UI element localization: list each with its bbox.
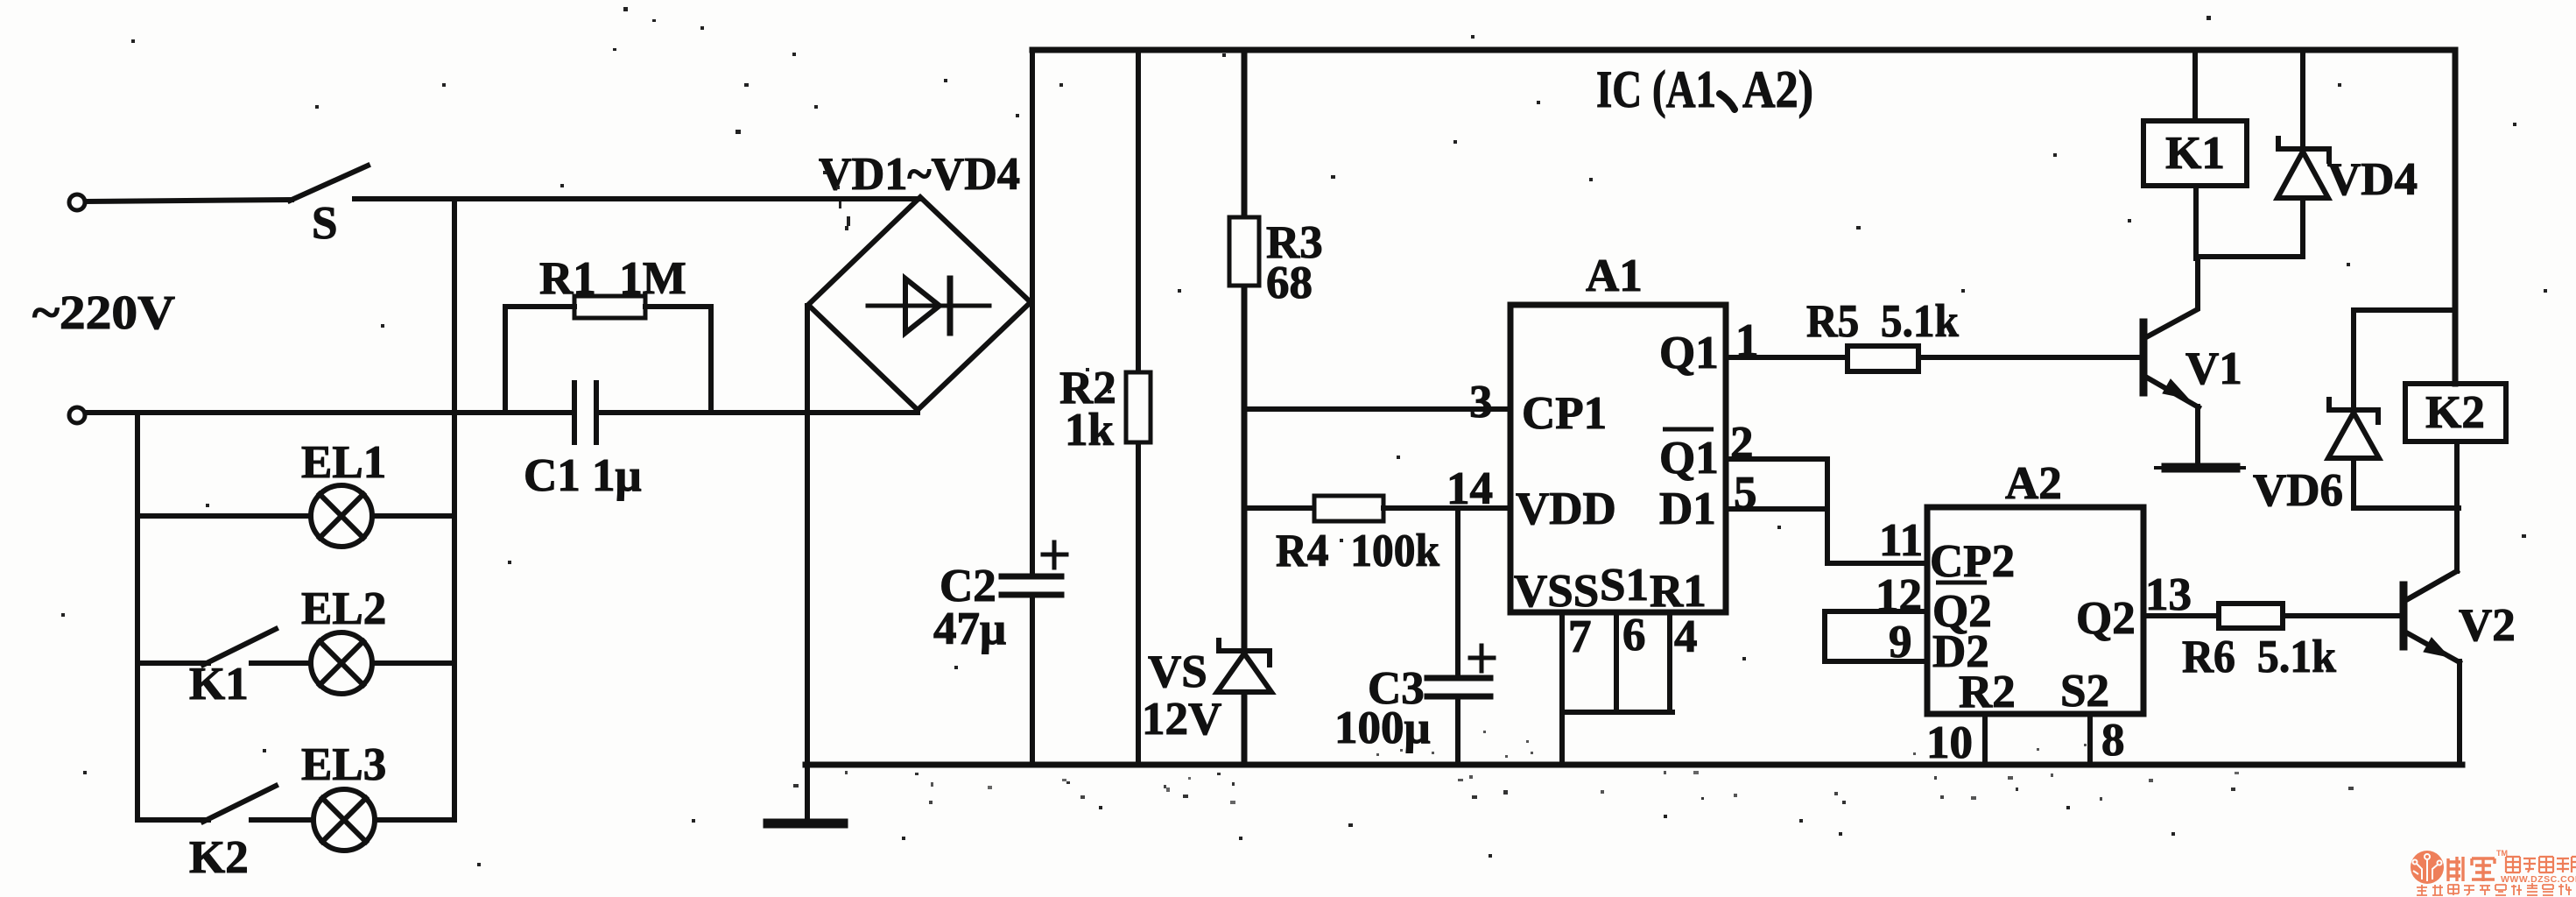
svg-text:K1: K1 [189, 659, 249, 710]
wire VD4 to K1 junction [2196, 254, 2303, 259]
wire lamp right rail [452, 200, 457, 820]
wire bridge minus output down [805, 306, 810, 823]
lamp EL3 [251, 817, 313, 823]
pin 8 stub [2087, 714, 2093, 762]
svg-text:VD6: VD6 [2253, 465, 2343, 516]
pin 12 to pin 9 loop Q2bar to D2 [1825, 611, 1927, 661]
svg-text:VSS: VSS [1514, 566, 1599, 617]
svg-text:Q1: Q1 [1659, 328, 1719, 378]
svg-text:IC (A1: IC (A1 [1596, 60, 1716, 118]
capacitor C1 [572, 383, 577, 442]
svg-text:7: 7 [1568, 611, 1592, 662]
diode VD4 [2300, 50, 2305, 149]
pin 6 stub [1614, 612, 1619, 712]
wire CP1 (pin 3) [1244, 406, 1510, 412]
svg-text:VD4: VD4 [2327, 154, 2418, 205]
wire pin bus A1 [1562, 710, 1672, 715]
svg-text:C1 1μ: C1 1μ [524, 450, 642, 501]
resistor R4 [1244, 505, 1314, 511]
AC input terminal top [69, 194, 85, 210]
diode VD6 [2354, 310, 2455, 410]
svg-text:EL2: EL2 [301, 583, 386, 634]
pin 2 wire Q1bar [1726, 459, 1927, 563]
svg-text:9: 9 [1889, 617, 1912, 667]
svg-text:D1: D1 [1659, 484, 1716, 534]
resistor R1 [505, 307, 574, 413]
wire bottom ground rail [806, 762, 2462, 768]
AC input terminal bottom [69, 407, 85, 423]
wire from top terminal to switch S [86, 200, 292, 201]
pin 5 wire D1 [1726, 506, 1827, 512]
svg-text:1k: 1k [1065, 405, 1115, 456]
resistor R6 [2219, 604, 2283, 628]
pin 1 wire Q1 to R5 [1726, 355, 1848, 360]
svg-text:R1 1M: R1 1M [539, 253, 686, 304]
svg-text:4: 4 [1674, 611, 1698, 662]
svg-text:R5 5.1k: R5 5.1k [1806, 296, 1959, 347]
pin 13 wire Q2 to R6 [2143, 613, 2219, 618]
wire top supply rail [1032, 50, 2455, 384]
ground V1 emitter [2156, 466, 2244, 470]
svg-text:K1: K1 [2165, 128, 2225, 179]
wire bottom terminal to C1 left plate (AC line 2) [86, 410, 574, 415]
svg-text:13: 13 [2145, 569, 2192, 620]
IC A2 [1927, 507, 2143, 714]
svg-text:K2: K2 [189, 832, 249, 883]
capacitor C3 [1455, 508, 1460, 675]
svg-text:WWW.DZSC.COM: WWW.DZSC.COM [2501, 874, 2576, 885]
switch S blade [290, 166, 368, 201]
svg-text:47μ: 47μ [933, 604, 1006, 654]
zener diode VS [1219, 640, 1270, 665]
svg-text:VS: VS [1148, 646, 1207, 697]
svg-text:12: 12 [1876, 570, 1922, 621]
svg-text:68: 68 [1266, 258, 1313, 308]
watermark [2411, 849, 2576, 895]
svg-text:~220V: ~220V [32, 286, 175, 339]
svg-text:EL1: EL1 [301, 437, 386, 488]
watermark logo circle [2411, 851, 2444, 884]
IC A1 [1510, 305, 1726, 612]
svg-text:A1: A1 [1586, 251, 1643, 301]
resistor R2 [1136, 50, 1141, 765]
lamp EL1 [137, 513, 311, 519]
svg-text:A2): A2) [1742, 60, 1813, 118]
watermark slogan glyphs [2417, 883, 2572, 895]
svg-text:A2: A2 [2005, 458, 2062, 509]
wire switch S to bridge top (AC line 1) [355, 196, 920, 201]
svg-text:S2: S2 [2060, 666, 2109, 717]
resistor R3 [1242, 50, 1248, 765]
wire bridge plus output vertical [1030, 50, 1035, 574]
lamp EL2 [251, 660, 311, 666]
svg-text:VDD: VDD [1516, 484, 1616, 534]
svg-text:VD1~VD4: VD1~VD4 [819, 149, 1020, 200]
relay contact K2 [137, 817, 208, 823]
svg-text:S: S [312, 198, 337, 249]
svg-text:Q2: Q2 [2076, 593, 2136, 644]
pin 4 stub [1667, 612, 1672, 712]
svg-text:6: 6 [1622, 610, 1646, 660]
svg-text:14: 14 [1446, 463, 1493, 514]
svg-text:11: 11 [1879, 515, 1923, 566]
bridge rectifier VD1~VD4 [808, 197, 1031, 410]
svg-text:CP1: CP1 [1522, 388, 1607, 439]
svg-text:R2: R2 [1959, 667, 2016, 717]
relay contact K1 [137, 660, 208, 666]
svg-text:R1: R1 [1650, 566, 1707, 617]
wire lamp left rail [135, 413, 140, 820]
relay coil K1 [2192, 50, 2198, 121]
svg-text:10: 10 [1926, 717, 1973, 768]
svg-text:R6 5.1k: R6 5.1k [2182, 632, 2336, 682]
watermark site name glyphs [2506, 857, 2576, 872]
svg-text:V2: V2 [2459, 600, 2516, 651]
pin 10 stub [1982, 714, 1988, 762]
svg-text:Q1: Q1 [1659, 433, 1719, 484]
transistor V1 [2140, 322, 2148, 392]
svg-text:100μ: 100μ [1334, 703, 1431, 753]
svg-text:V1: V1 [2185, 343, 2242, 394]
relay coil K2 [2405, 384, 2506, 441]
svg-text:R4 100k: R4 100k [1276, 526, 1439, 576]
svg-text:3: 3 [1469, 377, 1493, 427]
svg-text:EL3: EL3 [301, 739, 386, 790]
svg-text:12V: 12V [1142, 694, 1221, 745]
svg-text:S1: S1 [1600, 560, 1649, 611]
transistor V2 [2400, 585, 2408, 646]
wire C1 right plate to bridge bottom vertex [596, 410, 918, 415]
svg-text:2: 2 [1730, 418, 1754, 469]
capacitor C2 [1002, 574, 1061, 580]
svg-text:8: 8 [2101, 715, 2125, 766]
watermark brand glyphs [2448, 857, 2495, 881]
resistor R5 [1848, 346, 1918, 371]
svg-text:K2: K2 [2425, 387, 2485, 438]
svg-text:1: 1 [1735, 315, 1759, 366]
svg-text:5: 5 [1734, 468, 1757, 519]
ground [768, 819, 843, 829]
svg-text:CP2: CP2 [1930, 536, 2015, 587]
pin 7 stub [1559, 612, 1565, 763]
